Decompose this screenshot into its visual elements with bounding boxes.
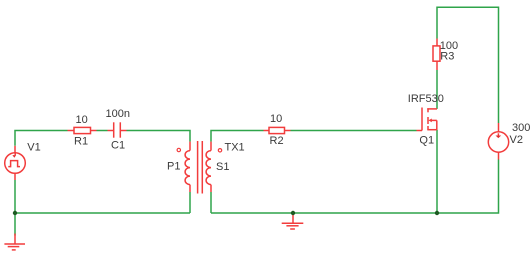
svg-text:Q1: Q1 (419, 134, 434, 146)
channel segment top (427, 108, 429, 112)
svg-text:V2: V2 (510, 134, 523, 146)
source stub (427, 129, 437, 131)
resistor R3 (433, 39, 440, 71)
svg-text:10: 10 (76, 114, 88, 126)
wire: R2 to Q1 gate (291, 130, 417, 132)
junction dot Q1 source / bottom rail (435, 211, 439, 215)
svg-text:R2: R2 (270, 135, 284, 147)
wire: R3 top to top rail to V2 top (437, 7, 499, 123)
ground (middle, bottom rail) (282, 215, 304, 230)
svg-text:TX1: TX1 (225, 142, 245, 154)
wire: green segment R1 to C1 (97, 130, 108, 132)
svg-text:IRF530: IRF530 (408, 93, 444, 105)
body-source vertical (436, 120, 438, 129)
channel segment middle (427, 117, 429, 124)
wire: primary bottom to left bottom rail (189, 192, 191, 213)
polarity dot primary (177, 148, 180, 151)
svg-text:300: 300 (512, 122, 530, 134)
junction dot middle ground node (291, 211, 295, 215)
wire: V1 top riser and top rail to R1 (15, 131, 68, 146)
pulse source V1 (5, 146, 26, 180)
body arrow head (428, 119, 431, 123)
svg-text:C1: C1 (111, 139, 125, 151)
svg-text:R3: R3 (440, 50, 454, 62)
wire: V2 bottom down to bottom rail (211, 160, 499, 214)
gate lead (417, 130, 423, 132)
source V2 (488, 123, 508, 160)
resistor R2 (264, 127, 291, 133)
mosfet Q1 (417, 108, 438, 131)
wire: secondary bottom to right bottom rail (210, 192, 212, 213)
wire: Q1 source down to bottom rail (436, 130, 438, 213)
resistor R1 (68, 127, 97, 133)
transformer TX1 primary winding P1 (185, 142, 190, 192)
transformer TX1 secondary winding S1 (206, 142, 211, 192)
transformer TX1 core (198, 141, 203, 194)
svg-text:R1: R1 (74, 135, 88, 147)
channel segment bottom (427, 126, 429, 130)
junction dot node V1- / left rail (13, 211, 17, 215)
wire: C1 to transformer primary corner (127, 131, 191, 142)
svg-text:100n: 100n (106, 108, 130, 120)
svg-text:10: 10 (270, 113, 282, 125)
polarity dot secondary (218, 149, 221, 152)
body arrow line (431, 119, 437, 121)
drain stub (427, 108, 437, 110)
wire: Q1 drain up to R3 (436, 70, 438, 109)
gate bar (421, 108, 423, 131)
wire: left bottom rail (15, 212, 190, 214)
svg-text:P1: P1 (167, 160, 180, 172)
svg-text:S1: S1 (216, 161, 229, 173)
capacitor C1 (108, 122, 127, 137)
svg-text:V1: V1 (27, 142, 40, 154)
ground (left, below V1) (4, 234, 25, 250)
wire: secondary top riser and rail to R2 (211, 131, 264, 142)
wire: V1 bottom vertical down to ground stub (14, 180, 16, 236)
